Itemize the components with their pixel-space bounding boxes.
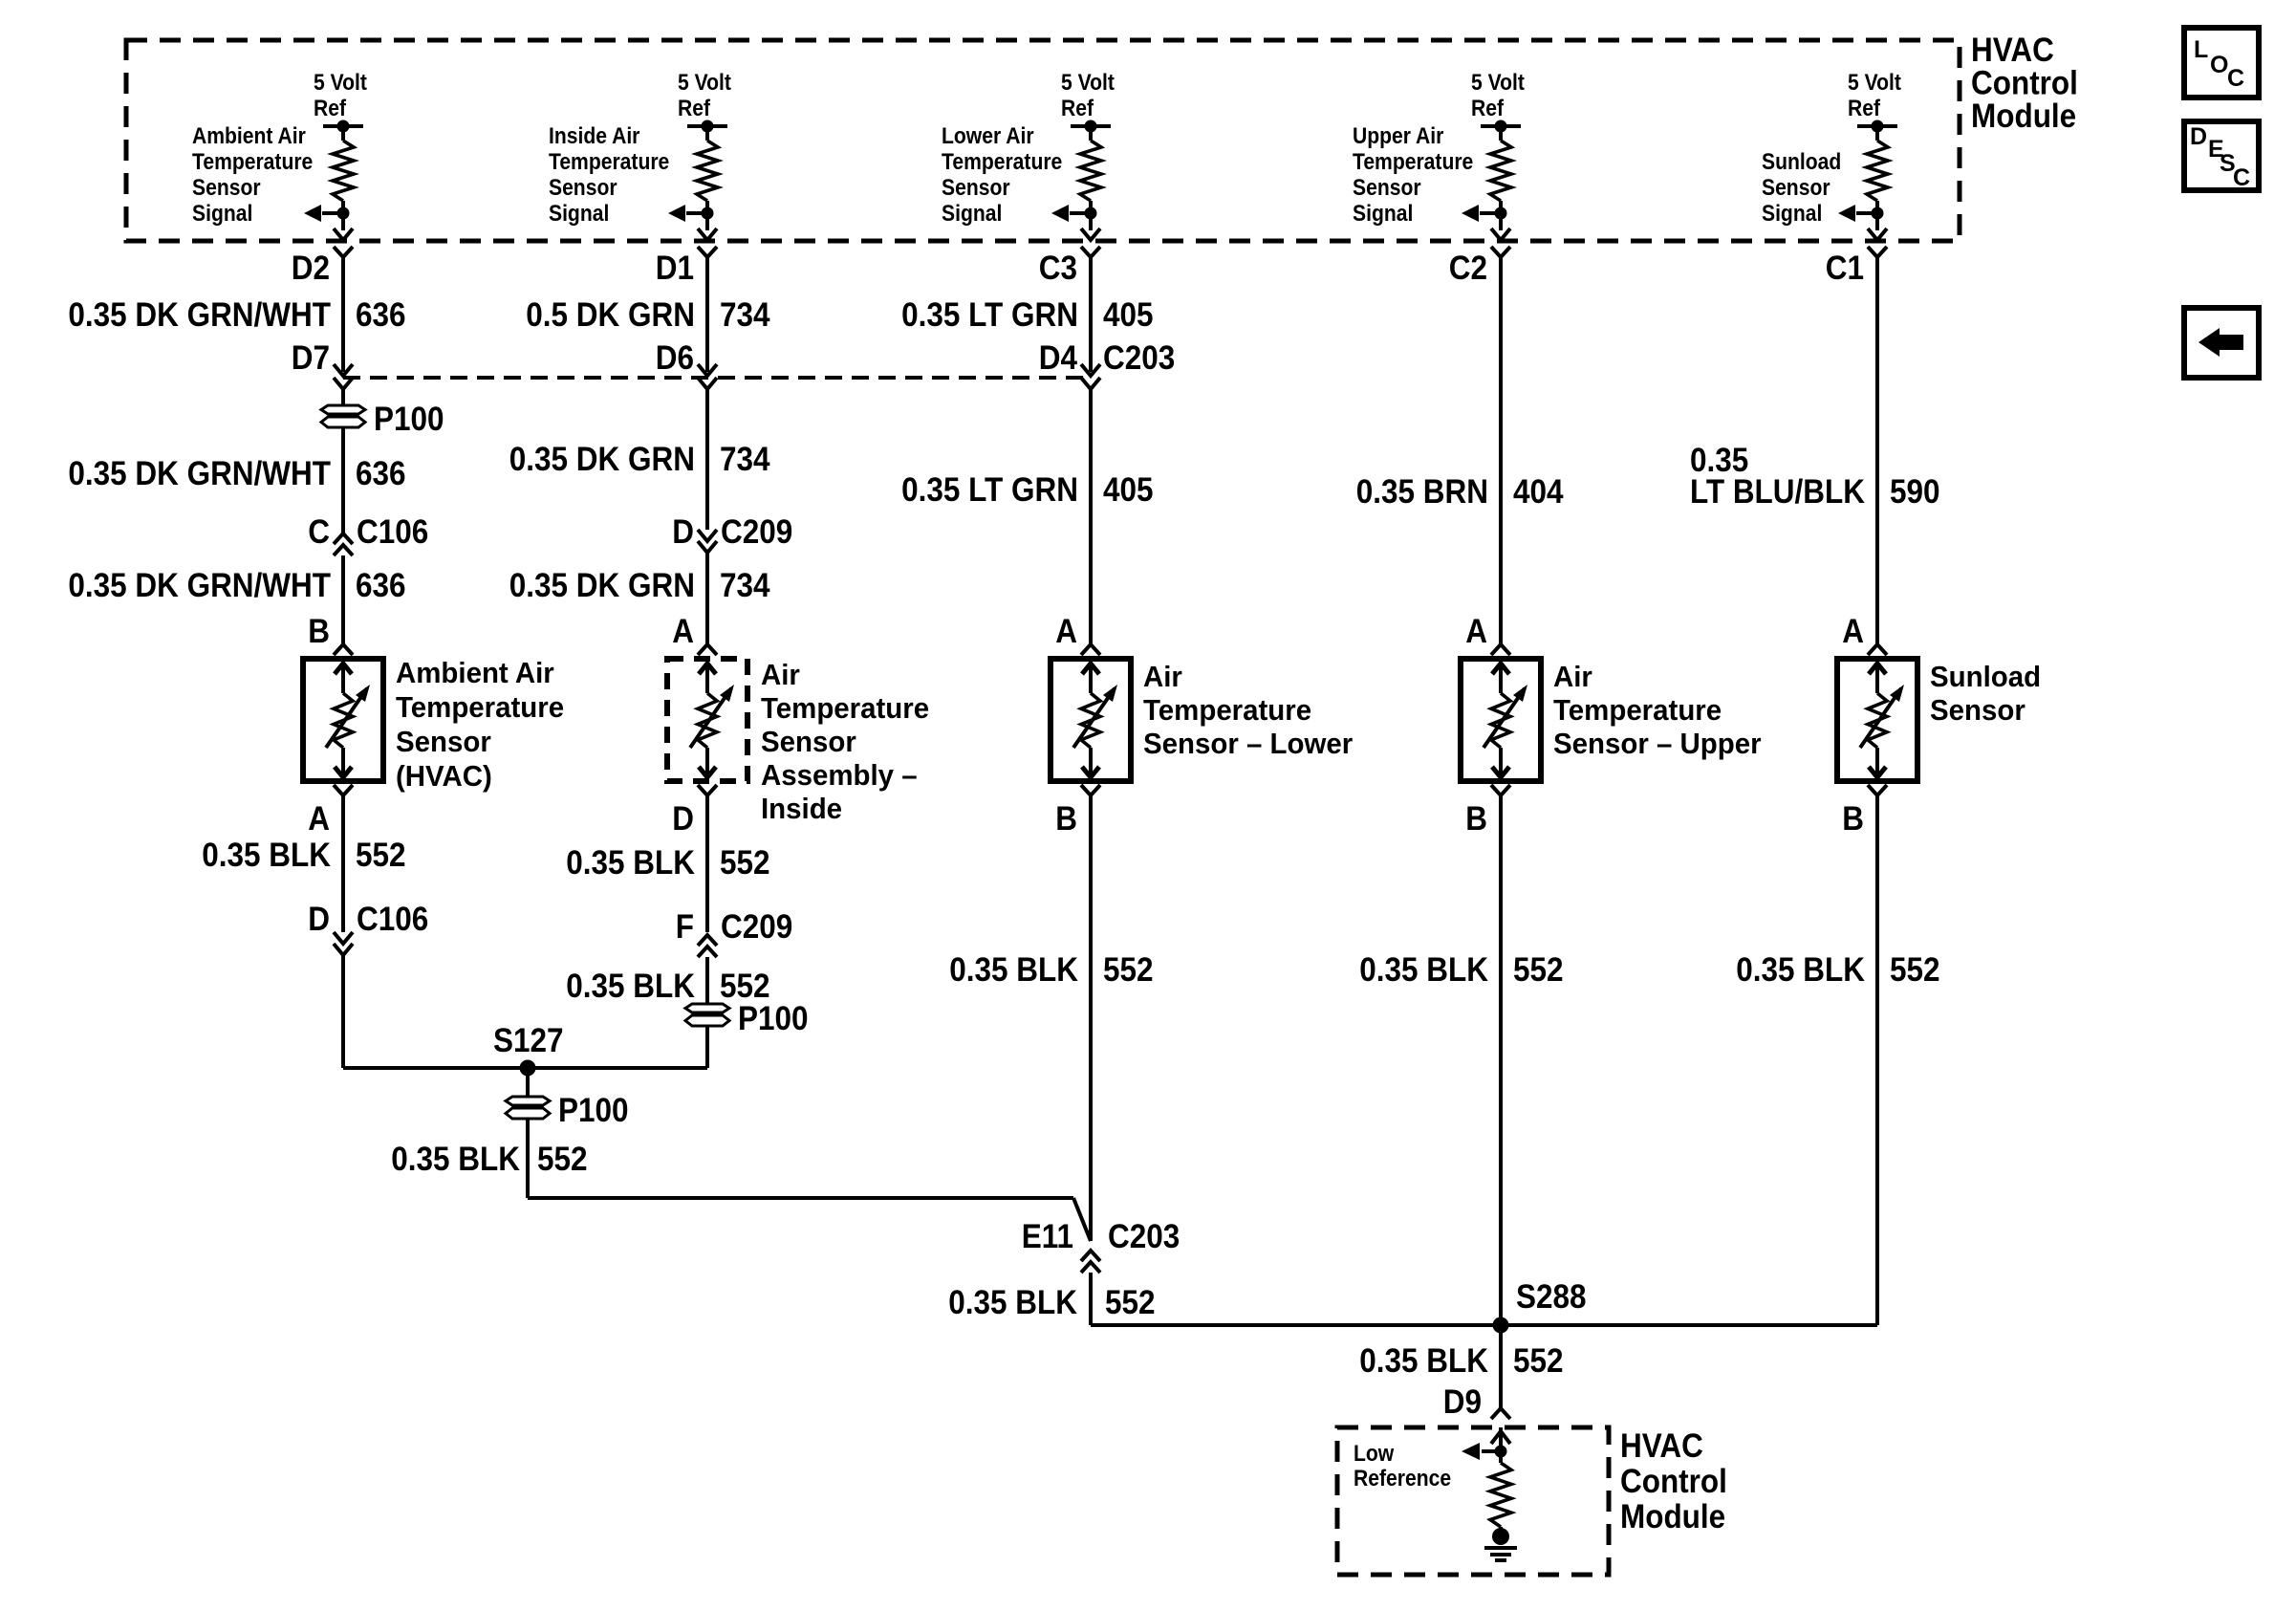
- svg-text:Temperature: Temperature: [396, 691, 564, 724]
- svg-text:Module: Module: [1971, 98, 2076, 136]
- svg-text:0.35 DK GRN/WHT: 0.35 DK GRN/WHT: [68, 297, 331, 335]
- svg-text:C209: C209: [721, 514, 792, 552]
- svg-text:C209: C209: [721, 909, 792, 947]
- svg-text:Sensor: Sensor: [1353, 175, 1421, 201]
- svg-text:734: 734: [720, 568, 770, 605]
- svg-text:404: 404: [1513, 474, 1564, 512]
- svg-text:C1: C1: [1826, 250, 1864, 288]
- svg-text:Temperature: Temperature: [1553, 694, 1722, 727]
- svg-text:B: B: [308, 614, 330, 651]
- svg-text:552: 552: [1103, 952, 1154, 990]
- svg-text:D2: D2: [292, 250, 330, 288]
- svg-text:734: 734: [720, 442, 770, 479]
- svg-text:552: 552: [1513, 1343, 1564, 1381]
- svg-text:D: D: [308, 902, 330, 939]
- svg-text:Temperature: Temperature: [549, 149, 669, 175]
- svg-text:Reference: Reference: [1354, 1466, 1451, 1491]
- svg-text:0.35 BLK: 0.35 BLK: [566, 969, 695, 1006]
- svg-text:552: 552: [1105, 1285, 1156, 1322]
- svg-text:A: A: [1465, 614, 1487, 651]
- svg-text:405: 405: [1103, 297, 1154, 335]
- svg-text:0.35 DK GRN/WHT: 0.35 DK GRN/WHT: [68, 568, 331, 605]
- svg-text:HVAC: HVAC: [1971, 33, 2054, 70]
- svg-text:D: D: [672, 801, 694, 838]
- svg-text:5 Volt: 5 Volt: [1848, 70, 1901, 96]
- svg-text:Assembly –: Assembly –: [761, 759, 918, 792]
- svg-text:C2: C2: [1449, 250, 1487, 288]
- svg-text:0.35 DK GRN/WHT: 0.35 DK GRN/WHT: [68, 456, 331, 493]
- svg-text:734: 734: [720, 297, 770, 335]
- svg-text:F: F: [676, 909, 694, 947]
- svg-text:Ref: Ref: [1061, 96, 1094, 121]
- svg-text:Inside: Inside: [761, 793, 842, 825]
- svg-text:C203: C203: [1108, 1219, 1180, 1256]
- svg-text:S288: S288: [1516, 1279, 1587, 1317]
- svg-text:Control: Control: [1620, 1464, 1727, 1501]
- svg-text:0.35 BRN: 0.35 BRN: [1356, 474, 1488, 512]
- svg-text:636: 636: [356, 568, 406, 605]
- svg-text:Sensor – Upper: Sensor – Upper: [1553, 728, 1762, 760]
- svg-text:D6: D6: [656, 340, 694, 378]
- svg-text:D: D: [672, 514, 694, 552]
- svg-text:552: 552: [720, 845, 770, 882]
- svg-text:Sensor: Sensor: [396, 726, 491, 758]
- svg-text:Temperature: Temperature: [1353, 149, 1473, 175]
- svg-text:P100: P100: [738, 1001, 809, 1038]
- svg-text:552: 552: [356, 838, 406, 875]
- svg-text:P100: P100: [558, 1093, 629, 1130]
- svg-text:S127: S127: [493, 1023, 564, 1060]
- svg-text:Sensor: Sensor: [549, 175, 617, 201]
- svg-text:D7: D7: [292, 340, 330, 378]
- svg-text:0.5 DK GRN: 0.5 DK GRN: [526, 297, 695, 335]
- svg-text:5 Volt: 5 Volt: [1061, 70, 1115, 96]
- svg-text:Sunload: Sunload: [1762, 149, 1841, 175]
- svg-text:552: 552: [1890, 952, 1940, 990]
- svg-text:Temperature: Temperature: [1143, 694, 1311, 727]
- svg-text:P100: P100: [374, 402, 444, 439]
- svg-text:636: 636: [356, 456, 406, 493]
- svg-text:L: L: [2194, 36, 2208, 63]
- svg-text:0.35 LT GRN: 0.35 LT GRN: [901, 472, 1078, 510]
- svg-text:0.35 LT GRN: 0.35 LT GRN: [901, 297, 1078, 335]
- svg-text:0.35 BLK: 0.35 BLK: [949, 952, 1078, 990]
- svg-text:C: C: [2233, 164, 2250, 191]
- svg-text:Signal: Signal: [549, 201, 609, 227]
- svg-text:636: 636: [356, 297, 406, 335]
- svg-text:0.35 BLK: 0.35 BLK: [1359, 952, 1488, 990]
- svg-text:Sensor – Lower: Sensor – Lower: [1143, 728, 1353, 760]
- svg-text:C106: C106: [357, 514, 428, 552]
- svg-text:O: O: [2210, 52, 2228, 78]
- svg-text:D: D: [2190, 123, 2207, 150]
- svg-text:Low: Low: [1354, 1441, 1395, 1467]
- svg-text:5 Volt: 5 Volt: [678, 70, 731, 96]
- svg-text:Ambient Air: Ambient Air: [396, 657, 554, 689]
- svg-text:552: 552: [537, 1142, 588, 1179]
- svg-text:A: A: [672, 614, 694, 651]
- svg-text:405: 405: [1103, 472, 1154, 510]
- svg-text:B: B: [1055, 801, 1077, 838]
- svg-text:5 Volt: 5 Volt: [314, 70, 367, 96]
- svg-text:Inside Air: Inside Air: [549, 123, 640, 149]
- svg-text:Ref: Ref: [1471, 96, 1504, 121]
- svg-text:Temperature: Temperature: [942, 149, 1062, 175]
- svg-text:Sensor: Sensor: [761, 726, 856, 758]
- svg-text:Sensor: Sensor: [1762, 175, 1830, 201]
- svg-text:D9: D9: [1443, 1384, 1482, 1422]
- svg-text:Sensor: Sensor: [192, 175, 261, 201]
- svg-text:Upper Air: Upper Air: [1353, 123, 1444, 149]
- svg-text:A: A: [1842, 614, 1864, 651]
- svg-text:590: 590: [1890, 474, 1940, 512]
- svg-text:C3: C3: [1039, 250, 1077, 288]
- svg-text:0.35 BLK: 0.35 BLK: [391, 1142, 520, 1179]
- svg-text:D4: D4: [1039, 340, 1078, 378]
- svg-text:Ref: Ref: [314, 96, 346, 121]
- svg-text:0.35 BLK: 0.35 BLK: [1736, 952, 1865, 990]
- svg-text:0.35 DK GRN: 0.35 DK GRN: [509, 568, 695, 605]
- svg-text:Signal: Signal: [1353, 201, 1413, 227]
- svg-text:5 Volt: 5 Volt: [1471, 70, 1525, 96]
- svg-text:A: A: [308, 801, 330, 838]
- svg-text:Ambient Air: Ambient Air: [192, 123, 306, 149]
- svg-text:0.35 DK GRN: 0.35 DK GRN: [509, 442, 695, 479]
- svg-text:552: 552: [1513, 952, 1564, 990]
- svg-text:Signal: Signal: [1762, 201, 1822, 227]
- svg-text:Sunload: Sunload: [1930, 661, 2041, 693]
- svg-text:Air: Air: [1553, 661, 1592, 693]
- svg-text:0.35 BLK: 0.35 BLK: [1359, 1343, 1488, 1381]
- svg-text:E11: E11: [1022, 1219, 1073, 1256]
- svg-text:(HVAC): (HVAC): [396, 760, 492, 793]
- svg-text:HVAC: HVAC: [1620, 1428, 1703, 1466]
- svg-text:C106: C106: [357, 902, 428, 939]
- svg-text:B: B: [1842, 801, 1864, 838]
- svg-text:A: A: [1055, 614, 1077, 651]
- svg-text:Signal: Signal: [942, 201, 1002, 227]
- svg-text:B: B: [1465, 801, 1487, 838]
- svg-text:0.35 BLK: 0.35 BLK: [948, 1285, 1077, 1322]
- svg-text:C: C: [2227, 65, 2244, 92]
- svg-text:Lower Air: Lower Air: [942, 123, 1034, 149]
- svg-text:Air: Air: [1143, 661, 1182, 693]
- svg-text:D1: D1: [656, 250, 694, 288]
- svg-text:LT BLU/BLK: LT BLU/BLK: [1690, 474, 1865, 512]
- svg-text:Control: Control: [1971, 65, 2078, 102]
- svg-text:Sensor: Sensor: [1930, 694, 2025, 727]
- svg-text:Signal: Signal: [192, 201, 252, 227]
- svg-text:0.35 BLK: 0.35 BLK: [202, 838, 331, 875]
- svg-text:Ref: Ref: [678, 96, 710, 121]
- svg-text:Ref: Ref: [1848, 96, 1880, 121]
- svg-text:Temperature: Temperature: [192, 149, 313, 175]
- svg-text:0.35 BLK: 0.35 BLK: [566, 845, 695, 882]
- svg-text:C203: C203: [1103, 340, 1175, 378]
- svg-text:Module: Module: [1620, 1499, 1725, 1536]
- svg-text:Sensor: Sensor: [942, 175, 1010, 201]
- svg-text:C: C: [308, 514, 330, 552]
- svg-text:Air: Air: [761, 659, 800, 691]
- svg-text:Temperature: Temperature: [761, 692, 929, 725]
